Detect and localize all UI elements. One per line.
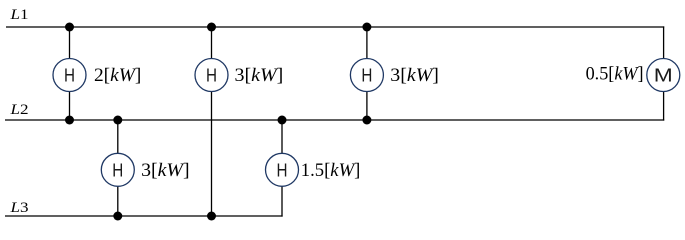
wire motor branch bottom — [663, 92, 665, 121]
heater H3 3kW — [350, 59, 383, 92]
svg-text:3[kW]: 3[kW] — [141, 160, 189, 181]
svg-text:3[kW]: 3[kW] — [390, 65, 439, 86]
wire branch heater5 top — [281, 120, 283, 154]
svg-text:2[kW]: 2[kW] — [94, 65, 141, 86]
svg-text:0.5[kW]: 0.5[kW] — [586, 64, 644, 85]
node junction L2-H5 — [278, 116, 287, 125]
svg-text:1.5[kW]: 1.5[kW] — [301, 160, 361, 181]
wire branch heater4 top — [117, 120, 119, 154]
node junction L2-H4 — [113, 116, 122, 125]
node junction L3-H4 — [113, 212, 122, 221]
node junction L2-H3 — [362, 116, 371, 125]
svg-text:M: M — [654, 66, 673, 86]
svg-text:L2: L2 — [9, 102, 28, 118]
heater H1 2kW — [53, 59, 86, 92]
svg-text:H: H — [361, 66, 372, 86]
svg-text:H: H — [277, 160, 288, 180]
heater H5 1.5kW — [266, 153, 299, 186]
wire L1 bus — [6, 26, 664, 28]
wire branch heater5 bottom — [281, 187, 283, 217]
svg-text:H: H — [206, 66, 217, 86]
svg-text:H: H — [64, 66, 75, 86]
svg-text:L3: L3 — [9, 200, 28, 216]
wire L3 bus — [5, 215, 283, 217]
wire branch heater3 bottom — [366, 92, 368, 121]
wire branch heater2 bottom (crosses L2 to L3) — [211, 92, 213, 217]
wire branch heater4 bottom — [117, 187, 119, 217]
node junction L1-H2 — [207, 23, 216, 32]
svg-text:L1: L1 — [9, 7, 28, 23]
node junction L2-H1 — [65, 116, 74, 125]
wire branch heater1 top — [69, 27, 71, 59]
node junction L3-H2 — [207, 212, 216, 221]
wire branch heater2 top — [211, 27, 213, 59]
wire branch heater1 bottom — [69, 92, 71, 121]
svg-text:3[kW]: 3[kW] — [235, 65, 284, 86]
wire L2 bus — [5, 119, 664, 121]
node junction L1-H1 — [65, 23, 74, 32]
heater H4 3kW — [101, 153, 134, 186]
heater H2 3kW — [195, 59, 228, 92]
svg-text:H: H — [112, 160, 123, 180]
motor M 0.5kW — [647, 59, 680, 92]
wire branch heater3 top — [366, 27, 368, 59]
node junction L1-H3 — [362, 23, 371, 32]
wire motor branch top — [663, 26, 665, 58]
